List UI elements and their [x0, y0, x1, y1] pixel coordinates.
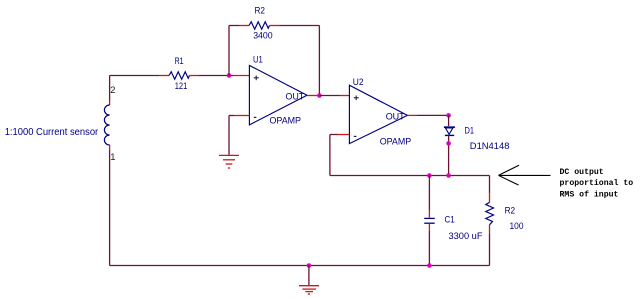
- svg-text:R2: R2: [255, 5, 266, 16]
- svg-text:OPAMP: OPAMP: [380, 136, 412, 147]
- resistor R2 load 100: [486, 193, 494, 234]
- ground G2 junction dot: [307, 263, 312, 268]
- node E junction dot y175 C1 branch: [427, 173, 432, 178]
- wire output row y175: [330, 175, 490, 177]
- wire R1 to node A: [199, 75, 229, 77]
- svg-text:1:1000 Current sensor: 1:1000 Current sensor: [5, 127, 99, 138]
- wire input row left: [110, 75, 160, 77]
- svg-text:DC output: DC output: [560, 168, 604, 177]
- wire C1 lower lead: [428, 224, 430, 266]
- wire feedback left vertical: [228, 26, 230, 76]
- svg-text:OUT: OUT: [386, 111, 405, 122]
- wire node A to U1 plus pin: [229, 75, 249, 77]
- svg-text:D1: D1: [465, 125, 475, 136]
- svg-text:RMS of input: RMS of input: [560, 189, 619, 199]
- svg-text:100: 100: [510, 220, 524, 231]
- svg-text:proportional to: proportional to: [560, 178, 634, 188]
- wire feedback top right: [280, 25, 320, 27]
- wire U1 out pin: [307, 95, 319, 97]
- capacitor C1: [424, 218, 435, 223]
- inductor L1 current sensor: [104, 101, 109, 151]
- wire bottom rail: [110, 265, 490, 267]
- svg-text:U1: U1: [253, 54, 263, 65]
- node B junction dot: [317, 93, 322, 98]
- ground G2: [299, 286, 319, 294]
- annotation DC output proportional to RMS of input: [560, 168, 634, 199]
- wire U2 feedback vertical: [329, 135, 331, 176]
- svg-text:R1: R1: [175, 55, 184, 66]
- wire feedback top left: [229, 25, 239, 27]
- svg-text:D1N4148: D1N4148: [470, 140, 510, 151]
- svg-text:U2: U2: [353, 76, 364, 87]
- wire C1 upper lead: [428, 176, 430, 218]
- wire left rail lower: [109, 150, 111, 266]
- wire diode cathode lead: [448, 135, 450, 175]
- wire diode anode lead: [448, 115, 450, 126]
- wire U2 out pin: [407, 114, 448, 116]
- wire R2 load lower lead: [489, 234, 491, 266]
- svg-text:OUT: OUT: [286, 90, 305, 101]
- C1 bottom junction dot: [427, 263, 432, 268]
- node A junction dot: [227, 73, 232, 78]
- svg-text:R2: R2: [505, 204, 515, 215]
- resistor R1: [160, 72, 199, 79]
- arrow DC output pointer: [499, 165, 551, 185]
- node C junction dot: [446, 113, 451, 118]
- wire left rail upper: [109, 76, 111, 101]
- diode D1: [444, 127, 455, 135]
- svg-text:C1: C1: [445, 213, 455, 224]
- resistor R2 feedback: [239, 22, 280, 29]
- node D junction dot y175 diode branch: [446, 173, 451, 178]
- wire U1 minus to ground corner: [229, 115, 249, 117]
- svg-text:3300 uF: 3300 uF: [449, 230, 483, 241]
- wire output right corner vertical: [489, 176, 491, 194]
- svg-text:2: 2: [110, 84, 115, 95]
- op-amp U2: [349, 85, 407, 143]
- op-amp U1: [249, 65, 307, 125]
- svg-text:121: 121: [175, 80, 188, 91]
- wire U1 ground stub: [228, 116, 230, 156]
- ground G1: [219, 155, 239, 168]
- wire G2 ground stub: [308, 266, 310, 286]
- diode cathode junction dot: [446, 141, 451, 146]
- wire feedback right vertical: [318, 26, 320, 96]
- svg-text:1: 1: [110, 151, 115, 162]
- svg-text:OPAMP: OPAMP: [270, 114, 302, 125]
- svg-text:3400: 3400: [253, 30, 273, 41]
- wire U2 minus pin: [330, 134, 350, 136]
- wire node B to U2 plus: [319, 95, 349, 97]
